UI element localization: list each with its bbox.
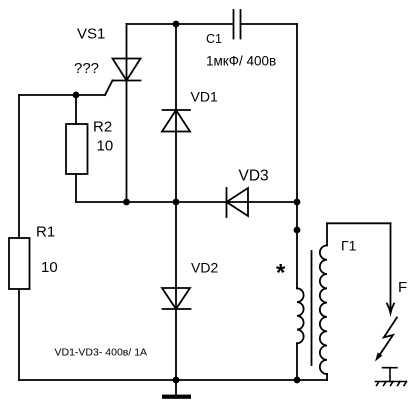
label VD2: [191, 260, 218, 276]
label ???: [74, 60, 99, 77]
diode VD2: [162, 288, 191, 309]
wire VD2 branch: [175, 202, 177, 380]
resistor R1: [9, 238, 30, 289]
svg-text:10: 10: [97, 138, 114, 155]
label F: [398, 279, 407, 296]
svg-text:VD1-VD3- 400в/ 1А: VD1-VD3- 400в/ 1А: [55, 347, 148, 359]
wire secondary top: [327, 222, 391, 224]
capacitor C1: [234, 10, 241, 39]
svg-text:10: 10: [41, 259, 58, 276]
resistor R2: [66, 95, 88, 202]
svg-text:VD2: VD2: [191, 260, 218, 276]
wire left branch lower: [18, 289, 20, 380]
transformer core: [311, 251, 313, 365]
transformer T1 primary winding: [297, 288, 304, 380]
diode VD1: [162, 110, 190, 132]
label VS1: [77, 26, 105, 43]
label VD3: [239, 168, 269, 185]
node bottom rail primary: [294, 377, 301, 384]
arrow to spark gap F: [387, 223, 394, 317]
svg-text:R1: R1: [36, 224, 55, 241]
svg-text:VS1: VS1: [77, 26, 105, 43]
wire VS1 cathode: [126, 81, 128, 203]
svg-text:VD1: VD1: [191, 89, 218, 105]
wire top rail left: [127, 23, 234, 25]
svg-text:F: F: [398, 279, 407, 296]
thyristor VS1: [105, 59, 141, 96]
label R2: [93, 119, 112, 136]
node right branch: [294, 227, 301, 234]
node middle rail VS1: [123, 199, 130, 206]
earth ground: [375, 382, 406, 386]
node middle rail VD1 VD2: [173, 199, 180, 206]
node middle rail right: [294, 199, 301, 206]
label R1 value 10: [41, 259, 58, 276]
transformer T1 secondary winding: [320, 223, 327, 380]
svg-text:*: *: [276, 260, 286, 287]
wire gate: [19, 94, 105, 96]
label C1: [206, 32, 222, 46]
spark discharge symbol: [375, 318, 397, 362]
polarity mark: [276, 260, 286, 287]
svg-text:C1: C1: [206, 32, 222, 46]
wire middle rail: [76, 201, 297, 203]
diode VD3: [227, 188, 249, 217]
svg-text:VD3: VD3: [239, 168, 269, 185]
node bottom rail VD2: [173, 377, 180, 384]
svg-text:Г1: Г1: [341, 238, 357, 254]
wire VS1 anode: [126, 24, 128, 81]
wire top rail right: [241, 23, 298, 25]
wire right branch: [296, 24, 298, 288]
node top junction: [173, 21, 180, 28]
node gate junction: [73, 92, 80, 99]
label C1 value: [206, 54, 276, 69]
label G1: [341, 238, 357, 254]
note VD1-VD3 rating: [55, 347, 148, 359]
ground: [162, 380, 191, 399]
earth electrode: [383, 368, 397, 382]
wire bottom rail: [19, 379, 327, 381]
svg-text:???: ???: [74, 60, 99, 77]
svg-text:1мкФ/ 400в: 1мкФ/ 400в: [206, 54, 276, 69]
label R1: [36, 224, 55, 241]
wire VD1 branch: [175, 24, 177, 202]
label R2 value 10: [97, 138, 114, 155]
wire left branch upper: [18, 95, 20, 238]
label VD1: [191, 89, 218, 105]
svg-text:R2: R2: [93, 119, 112, 136]
